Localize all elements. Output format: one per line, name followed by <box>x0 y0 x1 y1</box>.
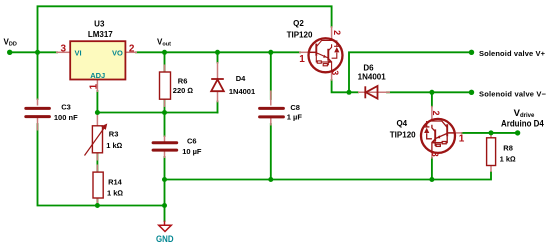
svg-text:Q2: Q2 <box>293 19 304 28</box>
svg-text:1 µF: 1 µF <box>287 112 303 121</box>
svg-text:100 nF: 100 nF <box>54 113 78 122</box>
svg-text:3: 3 <box>330 70 340 75</box>
svg-text:2: 2 <box>129 44 135 55</box>
svg-text:10 µF: 10 µF <box>182 147 202 156</box>
svg-text:2: 2 <box>431 110 441 115</box>
svg-text:VO: VO <box>112 48 123 57</box>
svg-text:C6: C6 <box>187 137 197 146</box>
svg-text:1: 1 <box>459 133 465 144</box>
svg-text:TIP120: TIP120 <box>390 131 416 140</box>
svg-text:1 kΩ: 1 kΩ <box>106 141 122 150</box>
svg-text:1N4001: 1N4001 <box>358 72 387 81</box>
svg-text:ADJ: ADJ <box>90 71 105 80</box>
svg-text:D4: D4 <box>236 74 246 83</box>
svg-text:2: 2 <box>332 30 342 35</box>
svg-text:Solenoid valve V−: Solenoid valve V− <box>479 89 547 98</box>
svg-text:VI: VI <box>75 48 82 57</box>
svg-text:C3: C3 <box>61 103 71 112</box>
svg-text:3: 3 <box>430 152 440 157</box>
svg-text:1 kΩ: 1 kΩ <box>107 188 123 197</box>
svg-text:R14: R14 <box>108 178 123 187</box>
svg-text:1 kΩ: 1 kΩ <box>500 155 516 164</box>
svg-text:Solenoid valve V+: Solenoid valve V+ <box>479 49 546 58</box>
svg-text:220 Ω: 220 Ω <box>173 86 194 95</box>
svg-text:1: 1 <box>299 54 305 65</box>
svg-text:R3: R3 <box>109 130 119 139</box>
svg-text:TIP120: TIP120 <box>287 30 313 39</box>
svg-text:R8: R8 <box>503 144 513 153</box>
svg-text:VDD: VDD <box>4 38 17 48</box>
svg-text:3: 3 <box>61 44 67 55</box>
svg-text:1: 1 <box>88 83 99 89</box>
svg-text:Vout: Vout <box>157 37 171 47</box>
svg-text:R6: R6 <box>178 77 188 86</box>
svg-text:1N4001: 1N4001 <box>229 87 255 96</box>
svg-text:Vdrive: Vdrive <box>514 108 535 119</box>
svg-text:Arduino D4: Arduino D4 <box>501 119 544 130</box>
svg-text:C8: C8 <box>290 103 300 112</box>
svg-text:Q4: Q4 <box>396 119 407 128</box>
svg-text:LM317: LM317 <box>88 30 113 39</box>
svg-text:D6: D6 <box>363 63 374 72</box>
svg-text:GND: GND <box>156 234 174 244</box>
svg-text:U3: U3 <box>94 20 105 29</box>
